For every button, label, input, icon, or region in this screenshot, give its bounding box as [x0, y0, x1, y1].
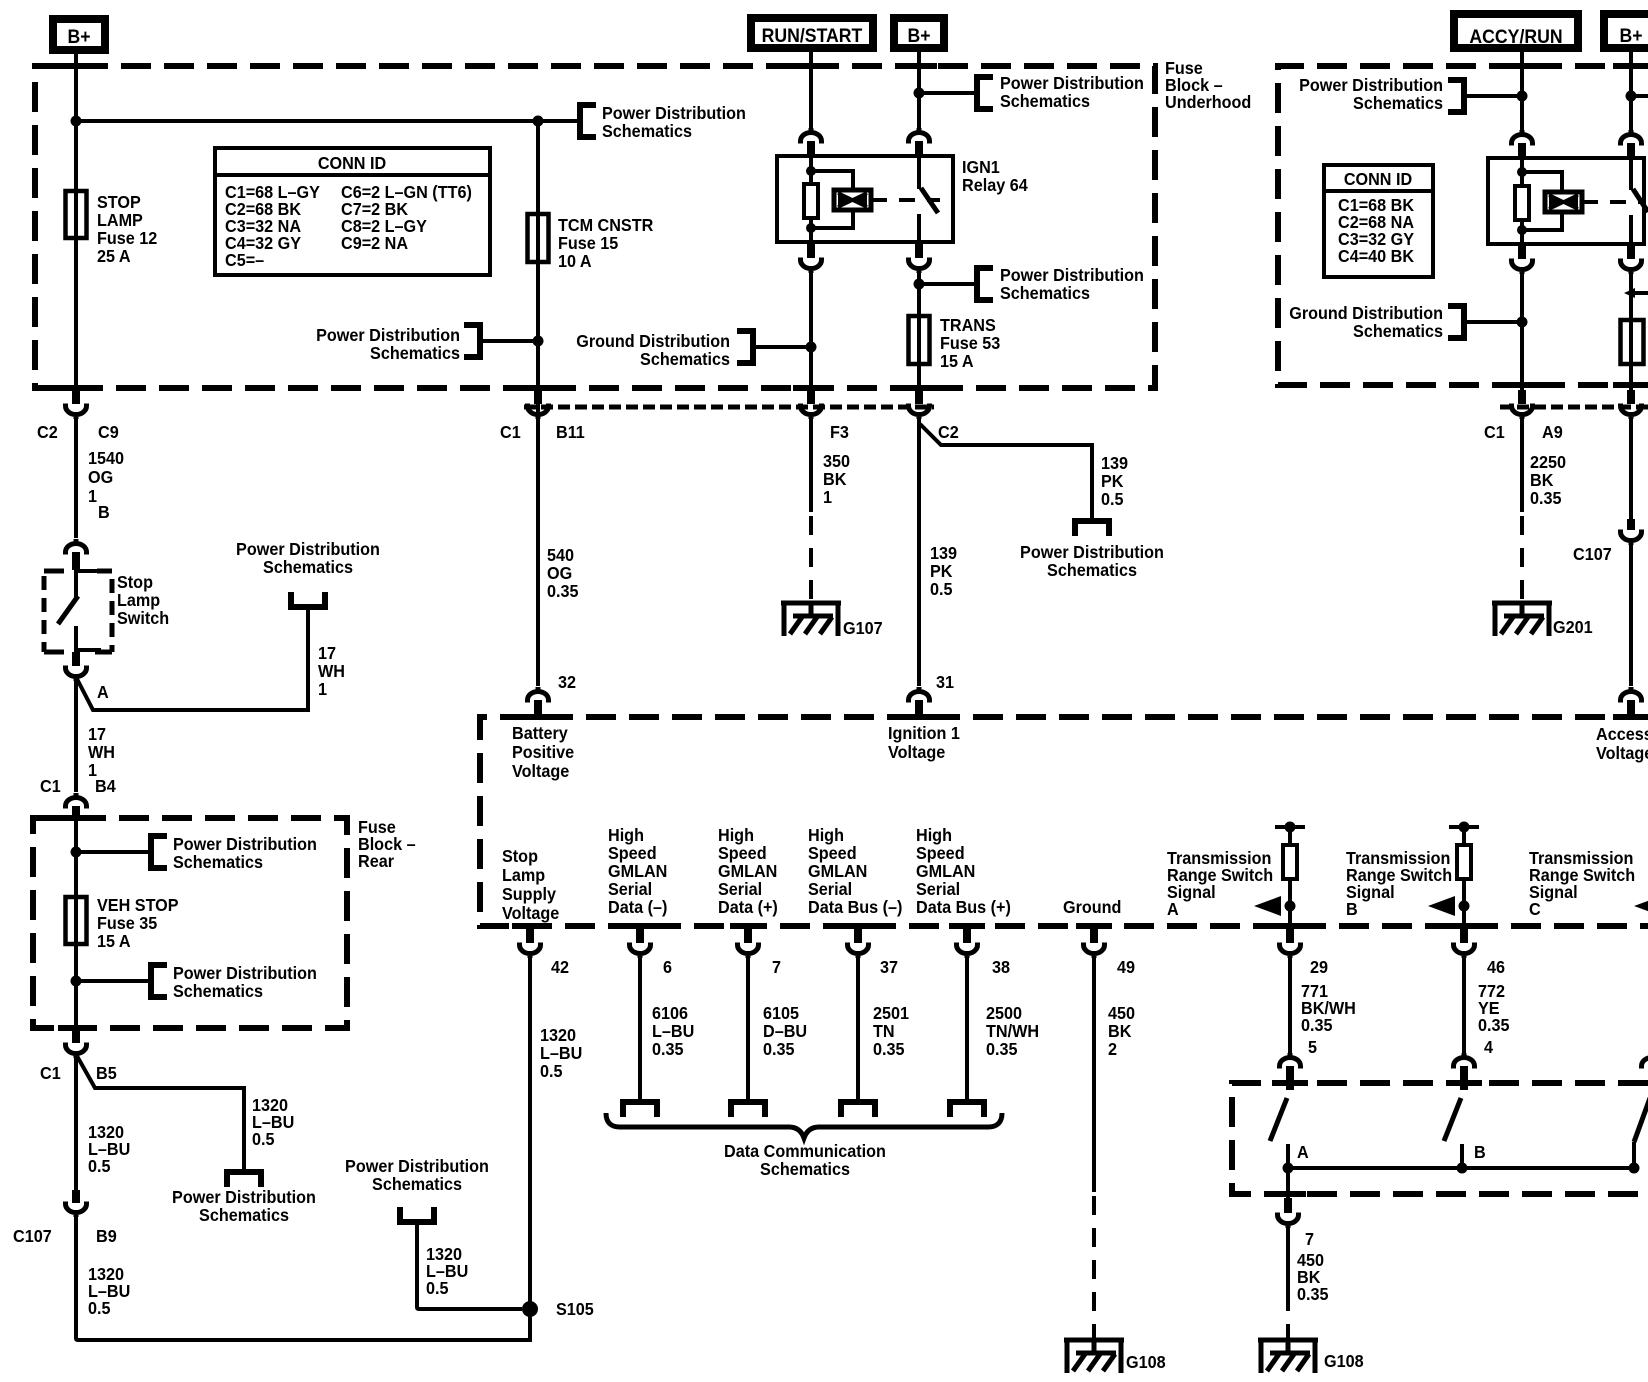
svg-text:Schematics: Schematics: [370, 343, 460, 363]
junction dot at 76,121: [71, 116, 82, 127]
svg-text:2501: 2501: [873, 1003, 909, 1023]
coil resistor: [804, 184, 818, 218]
svg-text:Ground: Ground: [1063, 897, 1121, 917]
svg-text:Stop: Stop: [117, 572, 153, 592]
branch wire to power distribution tag (17 WH 1): [77, 607, 308, 710]
svg-text:C5=–: C5=–: [225, 250, 264, 270]
connector right B+ exit: [1621, 390, 1642, 419]
svg-text:B4: B4: [95, 776, 116, 796]
svg-text:High: High: [718, 825, 754, 845]
svg-text:10 A: 10 A: [558, 251, 592, 271]
label high speed gmlan serial data bus (-): [808, 825, 902, 917]
svg-text:Schematics: Schematics: [1353, 321, 1443, 341]
wire 6105 D-BU 0.35 (pin 7): [746, 958, 750, 1099]
svg-text:Switch: Switch: [117, 608, 169, 628]
svg-text:1320: 1320: [540, 1025, 576, 1045]
svg-text:Underhood: Underhood: [1165, 92, 1251, 112]
svg-text:Speed: Speed: [718, 843, 767, 863]
splice S105: [522, 1301, 538, 1317]
connector C1/B4: [40, 776, 116, 820]
pin accessory into TCM: [1621, 687, 1642, 717]
svg-text:29: 29: [1310, 957, 1328, 977]
svg-text:Schematics: Schematics: [199, 1205, 289, 1225]
label transmission range switch signal B: [1346, 848, 1452, 919]
svg-text:G108: G108: [1324, 1351, 1364, 1371]
svg-text:Fuse 35: Fuse 35: [97, 913, 158, 933]
svg-text:15 A: 15 A: [97, 931, 131, 951]
svg-text:1540: 1540: [88, 448, 124, 468]
edge dash segments at pin crossings: [58, 63, 94, 69]
svg-text:C107: C107: [13, 1226, 52, 1246]
svg-text:Serial: Serial: [718, 879, 762, 899]
connector C1/A9: [1484, 390, 1563, 442]
svg-text:Rear: Rear: [358, 851, 394, 871]
fuse block underhood dashed box: [35, 66, 1155, 388]
svg-text:Ground Distribution: Ground Distribution: [1289, 303, 1443, 323]
svg-text:Data (–): Data (–): [608, 897, 667, 917]
wire accessory voltage down: [1629, 418, 1633, 519]
svg-text:Positive: Positive: [512, 742, 574, 762]
svg-text:WH: WH: [88, 742, 115, 762]
svg-text:Schematics: Schematics: [263, 557, 353, 577]
svg-text:GMLAN: GMLAN: [916, 861, 975, 881]
wire 2501 TN 0.35 (pin 37): [856, 958, 860, 1099]
svg-text:1: 1: [88, 486, 97, 506]
svg-text:17: 17: [88, 724, 106, 744]
fuse block rear dashed box: [33, 818, 347, 1028]
svg-text:25 A: 25 A: [97, 246, 131, 266]
svg-text:B9: B9: [96, 1226, 117, 1246]
switch blade C (clipped): [1634, 1098, 1648, 1168]
svg-text:B+: B+: [1619, 24, 1642, 46]
svg-text:B5: B5: [96, 1063, 117, 1083]
svg-text:Power Distribution: Power Distribution: [173, 834, 317, 854]
svg-text:Fuse 12: Fuse 12: [97, 228, 157, 248]
tag power distribution schematics top-left: [580, 103, 746, 141]
connector A below switch: [66, 652, 109, 702]
svg-text:B: B: [1346, 899, 1358, 919]
svg-text:G108: G108: [1126, 1352, 1166, 1372]
connector into switch A: [1280, 1053, 1301, 1090]
dotted module connector line underhood: [524, 405, 934, 410]
svg-text:BK: BK: [823, 469, 847, 489]
label accessory voltage (clipped): [1596, 724, 1648, 763]
wire relay coil to F3: [809, 273, 813, 390]
svg-text:Accessory: Accessory: [1596, 724, 1648, 744]
svg-text:CONN ID: CONN ID: [318, 153, 386, 173]
dashed wire to G107: [809, 516, 813, 601]
ground G108 right: [1258, 1338, 1364, 1373]
svg-text:High: High: [916, 825, 952, 845]
label ground: [1063, 897, 1121, 917]
svg-text:Power Distribution: Power Distribution: [172, 1187, 316, 1207]
svg-text:Serial: Serial: [916, 879, 960, 899]
svg-text:BK: BK: [1108, 1021, 1132, 1041]
svg-text:0.35: 0.35: [547, 581, 579, 601]
svg-text:0.5: 0.5: [88, 1156, 111, 1176]
node B stop lamp switch: [66, 502, 110, 570]
wire 540 OG 0.35: [547, 545, 579, 601]
svg-text:0.35: 0.35: [1301, 1015, 1333, 1035]
connector F3: [801, 390, 849, 442]
svg-text:46: 46: [1487, 957, 1505, 977]
fuse VEH STOP Fuse 35: [66, 895, 179, 951]
svg-text:350: 350: [823, 451, 850, 471]
svg-text:IGN1: IGN1: [962, 157, 1000, 177]
wire 772 YE 0.35: [1462, 958, 1466, 1053]
pull-up and arrow signal B: [1449, 825, 1479, 829]
svg-text:A9: A9: [1542, 422, 1563, 442]
svg-text:High: High: [608, 825, 644, 845]
connector C107/B9: [13, 1190, 117, 1246]
branch wire 1320 L-BU 0.5: [417, 1222, 522, 1309]
svg-text:Data Bus (+): Data Bus (+): [916, 897, 1011, 917]
dotted module connector line right: [1500, 405, 1648, 410]
svg-text:C9: C9: [98, 422, 119, 442]
svg-text:L–BU: L–BU: [540, 1043, 582, 1063]
wire 350 BK 1: [809, 418, 813, 512]
pin 42: [520, 928, 570, 977]
svg-text:B11: B11: [556, 422, 585, 442]
svg-text:BK: BK: [1530, 470, 1554, 490]
fuse TCM CNSTR Fuse 15: [528, 214, 654, 271]
svg-text:0.5: 0.5: [252, 1129, 275, 1149]
relay right (accessory relay): [1488, 158, 1644, 244]
svg-text:B+: B+: [67, 25, 90, 47]
wire switch common output: [1286, 1168, 1290, 1198]
relay right actuator dashed link: [1582, 200, 1640, 204]
svg-text:7: 7: [1305, 1229, 1314, 1249]
pin 7: [738, 928, 782, 977]
svg-text:B+: B+: [907, 24, 930, 46]
svg-text:A: A: [1167, 899, 1179, 919]
svg-text:540: 540: [547, 545, 574, 565]
wire ACCY/RUN down: [1520, 48, 1524, 130]
svg-text:GMLAN: GMLAN: [808, 861, 867, 881]
svg-text:0.5: 0.5: [426, 1278, 449, 1298]
wire 6106 L-BU 0.35 (pin 6): [638, 958, 642, 1099]
junction + tag power distribution schematics (rear lower): [71, 976, 82, 987]
svg-text:Data Communication: Data Communication: [724, 1141, 886, 1161]
connector C2/C9 at fuse block bottom: [37, 390, 119, 442]
svg-text:2500: 2500: [986, 1003, 1022, 1023]
svg-text:Power Distribution: Power Distribution: [236, 539, 380, 559]
svg-text:G107: G107: [843, 618, 883, 638]
pin 49: [1084, 928, 1136, 977]
svg-text:0.5: 0.5: [540, 1061, 563, 1081]
svg-text:2250: 2250: [1530, 452, 1566, 472]
svg-text:A: A: [97, 682, 109, 702]
svg-text:G201: G201: [1553, 617, 1593, 637]
relay coil branch: [804, 156, 853, 242]
junction dot at 538,121: [533, 116, 544, 127]
pin 37: [848, 928, 899, 977]
svg-text:Ground Distribution: Ground Distribution: [576, 331, 730, 351]
label fuse block underhood: [1165, 58, 1251, 112]
wire RUN/START down: [809, 48, 813, 128]
pull-up and arrow signal A: [1275, 825, 1305, 829]
svg-text:Power Distribution: Power Distribution: [602, 103, 746, 123]
ground G201: [1492, 601, 1593, 637]
svg-text:0.5: 0.5: [88, 1298, 111, 1318]
pin 31 into TCM: [909, 672, 955, 717]
svg-text:7: 7: [772, 957, 781, 977]
svg-text:C2: C2: [37, 422, 58, 442]
svg-text:ACCY/RUN: ACCY/RUN: [1469, 25, 1562, 47]
svg-text:0.35: 0.35: [1297, 1284, 1329, 1304]
svg-text:0.5: 0.5: [930, 579, 953, 599]
svg-text:Power Distribution: Power Distribution: [1000, 265, 1144, 285]
svg-text:15 A: 15 A: [940, 351, 974, 371]
svg-text:Schematics: Schematics: [1353, 93, 1443, 113]
svg-text:Schematics: Schematics: [372, 1174, 462, 1194]
common wire inside switch: [1288, 1166, 1634, 1170]
svg-text:Schematics: Schematics: [1047, 560, 1137, 580]
svg-text:Ignition 1: Ignition 1: [888, 723, 960, 743]
svg-text:Power Distribution: Power Distribution: [1000, 73, 1144, 93]
branch wire 139 PK to tag: [920, 424, 1092, 518]
svg-text:Stop: Stop: [502, 846, 538, 866]
svg-text:Battery: Battery: [512, 723, 568, 743]
svg-text:Serial: Serial: [808, 879, 852, 899]
svg-text:Speed: Speed: [808, 843, 857, 863]
svg-text:C9=2 NA: C9=2 NA: [341, 233, 408, 253]
svg-text:Schematics: Schematics: [1000, 283, 1090, 303]
wire B+ down: [917, 48, 921, 129]
wire relay switch to TRANS fuse: [917, 273, 921, 390]
arrow signal C (clipped): [1634, 896, 1648, 916]
connector C2 (ign wire): [909, 390, 959, 442]
wire ACCY down to C1/A9: [1520, 274, 1524, 390]
B+ terminal top left: [53, 19, 105, 50]
pin 38: [957, 928, 1011, 977]
connector C1/B5: [40, 1028, 117, 1083]
svg-text:GMLAN: GMLAN: [718, 861, 777, 881]
svg-text:Voltage: Voltage: [888, 742, 945, 762]
switch blade: [58, 596, 78, 624]
svg-text:STOP: STOP: [97, 192, 141, 212]
connector into switch C (clipped): [1642, 1053, 1648, 1090]
svg-text:Speed: Speed: [916, 843, 965, 863]
svg-text:TRANS: TRANS: [940, 315, 996, 335]
svg-text:Schematics: Schematics: [173, 852, 263, 872]
connector pin 7 switch output: [1278, 1198, 1315, 1249]
wire 2500 TN/WH 0.35 (pin 38): [965, 958, 969, 1099]
svg-text:0.35: 0.35: [763, 1039, 795, 1059]
relay IGN1 Relay 64: [777, 156, 1028, 242]
label ignition 1 voltage: [888, 723, 960, 762]
svg-text:C1: C1: [1484, 422, 1505, 442]
svg-text:C2: C2: [938, 422, 959, 442]
wire 450 BK 2 (pin 49): [1092, 958, 1096, 1192]
svg-text:4: 4: [1484, 1037, 1493, 1057]
svg-text:31: 31: [936, 672, 954, 692]
svg-text:1: 1: [823, 487, 832, 507]
ground G108 left: [1064, 1338, 1166, 1373]
svg-text:CONN ID: CONN ID: [1344, 169, 1412, 189]
B+ terminal right (clipped): [1604, 14, 1648, 48]
junction + tag power distribution schematics (right block): [1517, 91, 1528, 102]
svg-text:5: 5: [1308, 1037, 1317, 1057]
connector into switch B: [1454, 1053, 1475, 1090]
relay right switch: [1631, 158, 1648, 244]
relay connectors bottom: [801, 242, 822, 273]
svg-text:0.35: 0.35: [1530, 488, 1562, 508]
svg-text:VEH STOP: VEH STOP: [97, 895, 179, 915]
svg-text:WH: WH: [318, 661, 345, 681]
svg-text:D–BU: D–BU: [763, 1021, 807, 1041]
wire TCM CNSTR feed: [536, 121, 540, 686]
svg-text:GMLAN: GMLAN: [608, 861, 667, 881]
svg-text:C: C: [1529, 899, 1541, 919]
wire 1540 OG 1: [74, 418, 78, 538]
svg-text:6105: 6105: [763, 1003, 799, 1023]
svg-text:6106: 6106: [652, 1003, 688, 1023]
svg-text:Serial: Serial: [608, 879, 652, 899]
wire bottom run to S105: [76, 1217, 531, 1340]
svg-text:High: High: [808, 825, 844, 845]
svg-text:A: A: [1297, 1142, 1309, 1162]
relay right solenoid X-box: [1545, 192, 1582, 212]
switch blade B: [1444, 1098, 1486, 1168]
fuse block right dashed box: [1278, 66, 1648, 385]
wire 17 WH 1 main: [74, 681, 78, 792]
label fuse block rear: [358, 817, 416, 871]
label transmission range switch signal A: [1167, 848, 1273, 919]
svg-text:L–BU: L–BU: [652, 1021, 694, 1041]
relay solenoid X-box: [834, 190, 871, 210]
fuse right (clipped label): [1621, 320, 1644, 364]
svg-text:Schematics: Schematics: [760, 1159, 850, 1179]
label high speed gmlan serial data (+): [718, 825, 778, 917]
ground G107: [781, 601, 883, 638]
svg-text:0.35: 0.35: [873, 1039, 905, 1059]
svg-text:0.5: 0.5: [1101, 489, 1124, 509]
ACCY/RUN terminal: [1454, 14, 1578, 48]
switch blade A: [1270, 1098, 1309, 1168]
branch wire 1320 L-BU 0.5 to tag: [77, 1056, 244, 1172]
svg-text:Schematics: Schematics: [602, 121, 692, 141]
svg-text:450: 450: [1108, 1003, 1135, 1023]
relay right coil branch: [1515, 158, 1562, 244]
connector C1/B11: [500, 390, 585, 442]
svg-text:139: 139: [930, 543, 957, 563]
dashed wire to G201: [1520, 516, 1524, 601]
svg-text:Data Bus (–): Data Bus (–): [808, 897, 902, 917]
wire B+ left vertical: [74, 54, 78, 392]
svg-text:F3: F3: [830, 422, 849, 442]
svg-text:S105: S105: [556, 1299, 594, 1319]
relay switch: [919, 156, 938, 242]
wire 1320 L-BU 0.5 from pin 42: [530, 958, 532, 1340]
junction + tag ground distribution schematics (right): [1517, 317, 1528, 328]
svg-text:C1: C1: [500, 422, 521, 442]
svg-text:Data (+): Data (+): [718, 897, 778, 917]
svg-text:Power Distribution: Power Distribution: [345, 1156, 489, 1176]
svg-text:Power Distribution: Power Distribution: [1020, 542, 1164, 562]
svg-text:0.35: 0.35: [1478, 1015, 1510, 1035]
svg-text:0.35: 0.35: [652, 1039, 684, 1059]
pin 29: [1280, 928, 1329, 977]
relay IGN1 Relay 64 connectors top: [801, 128, 822, 157]
svg-text:LAMP: LAMP: [97, 210, 143, 230]
svg-text:PK: PK: [930, 561, 953, 581]
CONN ID table left: [215, 148, 490, 275]
wire B+ right with off-page arrow: [1629, 274, 1633, 390]
svg-text:0.35: 0.35: [986, 1039, 1018, 1059]
svg-text:B: B: [98, 502, 110, 522]
wire 2250 BK 0.35: [1520, 418, 1524, 512]
svg-text:2: 2: [1108, 1039, 1117, 1059]
svg-text:C1: C1: [40, 776, 61, 796]
wire 139 PK 0.5 to pin 31: [917, 418, 921, 686]
wire C107 to accessory pin: [1629, 545, 1633, 686]
transmission range switch dashed box: [1232, 1083, 1648, 1194]
pin 6: [630, 928, 673, 977]
fuse TRANS Fuse 53: [909, 315, 1001, 371]
svg-text:C4=40 BK: C4=40 BK: [1338, 246, 1415, 266]
junction to off-page right: [1626, 91, 1637, 102]
relay right connectors bottom: [1512, 244, 1533, 274]
svg-text:Relay 64: Relay 64: [962, 175, 1028, 195]
wire B+ right down: [1629, 48, 1633, 130]
B+ terminal middle: [894, 18, 944, 48]
svg-text:C1: C1: [40, 1063, 61, 1083]
wire horizontal bus y=121: [76, 119, 580, 123]
junction + tag power distribution schematics (rear upper): [71, 847, 82, 858]
svg-text:Power Distribution: Power Distribution: [173, 963, 317, 983]
svg-text:Schematics: Schematics: [1000, 91, 1090, 111]
TCM module dashed box: [480, 717, 1648, 926]
svg-text:6: 6: [663, 957, 672, 977]
svg-text:Supply: Supply: [502, 884, 556, 904]
relay right connectors top: [1512, 130, 1533, 158]
label transmission range switch signal C: [1529, 848, 1635, 919]
label high speed gmlan serial data (-): [608, 825, 667, 917]
RUN/START terminal: [751, 18, 873, 48]
label battery positive voltage: [512, 723, 574, 781]
svg-text:37: 37: [880, 957, 898, 977]
svg-text:B: B: [1474, 1142, 1486, 1162]
brace data communication schematics: [606, 1113, 1002, 1138]
svg-text:42: 42: [551, 957, 569, 977]
svg-text:Power Distribution: Power Distribution: [316, 325, 460, 345]
svg-text:RUN/START: RUN/START: [762, 24, 863, 46]
junction + tag ground distribution schematics: [806, 342, 817, 353]
svg-text:Fuse 15: Fuse 15: [558, 233, 619, 253]
tag power distribution schematics (S105 branch): [345, 1156, 489, 1222]
coil resistor right: [1515, 186, 1529, 220]
svg-text:TN: TN: [873, 1021, 895, 1041]
svg-text:C107: C107: [1573, 544, 1612, 564]
junction + tag power distribution schematics (mid-left): [533, 336, 544, 347]
svg-text:1: 1: [318, 679, 327, 699]
svg-text:Fuse 53: Fuse 53: [940, 333, 1000, 353]
CONN ID table right: [1324, 165, 1433, 277]
pin 32 into TCM: [528, 672, 577, 717]
junction + tag power distribution schematics (B+ lower): [914, 279, 925, 290]
svg-text:Speed: Speed: [608, 843, 657, 863]
svg-text:TCM CNSTR: TCM CNSTR: [558, 215, 653, 235]
wire 771 BK/WH 0.35: [1288, 958, 1292, 1053]
svg-text:Schematics: Schematics: [173, 981, 263, 1001]
wire 1320 L-BU 0.5 main: [74, 1058, 78, 1190]
svg-text:Schematics: Schematics: [640, 349, 730, 369]
label high speed gmlan serial data bus (+): [916, 825, 1011, 917]
svg-text:49: 49: [1117, 957, 1135, 977]
relay actuator dashed link: [871, 198, 940, 202]
svg-text:32: 32: [558, 672, 576, 692]
